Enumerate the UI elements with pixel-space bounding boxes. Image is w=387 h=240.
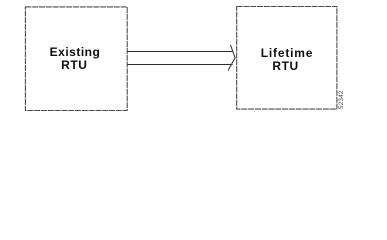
svg-text:Lifetime: Lifetime [261, 46, 313, 60]
wire upper line [127, 51, 233, 53]
arrowhead [228, 45, 235, 70]
box Lifetime RTU [237, 7, 337, 110]
svg-text:Existing: Existing [50, 45, 101, 59]
svg-text:RTU: RTU [272, 59, 298, 73]
box Existing RTU [25, 7, 127, 111]
svg-text:52342: 52342 [338, 90, 345, 109]
svg-text:RTU: RTU [61, 58, 87, 72]
wire lower line [127, 64, 232, 66]
